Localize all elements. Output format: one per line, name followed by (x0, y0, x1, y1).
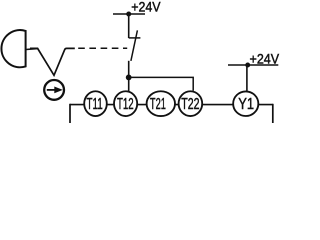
dashed actuation link (78, 47, 127, 49)
wire from junction to T22 (129, 77, 194, 90)
svg-text:Y1: Y1 (238, 96, 254, 113)
timer contact T21 (147, 91, 175, 116)
timer contact T12 (114, 91, 137, 116)
svg-text:T12: T12 (117, 96, 134, 113)
light-barrier sensor V (30, 48, 75, 75)
reflector (half-disc) (1, 30, 25, 67)
wire reflector to sensor (26, 48, 38, 51)
coil Y1 (233, 91, 258, 116)
+24V rail (top) (113, 13, 145, 15)
timer contact T11 (84, 91, 107, 116)
left drop wire (69, 104, 71, 123)
svg-text:T22: T22 (181, 96, 199, 113)
+24V rail (right) (228, 64, 278, 66)
junction dot (126, 75, 132, 81)
node dot right rail (245, 63, 250, 68)
svg-text:+24V: +24V (250, 50, 280, 66)
wire rail to Y1 (246, 65, 248, 92)
arrow (47, 89, 56, 91)
svg-text:T21: T21 (150, 96, 166, 113)
row wire through circles (70, 104, 273, 106)
svg-text:+24V: +24V (131, 0, 161, 15)
sensor emitter circle with arrow (44, 80, 64, 100)
node dot top rail (126, 12, 131, 17)
wire below contact (128, 61, 130, 91)
switch contact (NO) (128, 14, 130, 38)
right drop wire (272, 104, 274, 123)
contact blade (131, 30, 138, 61)
svg-text:T11: T11 (86, 96, 102, 113)
timer contact T22 (179, 91, 203, 116)
